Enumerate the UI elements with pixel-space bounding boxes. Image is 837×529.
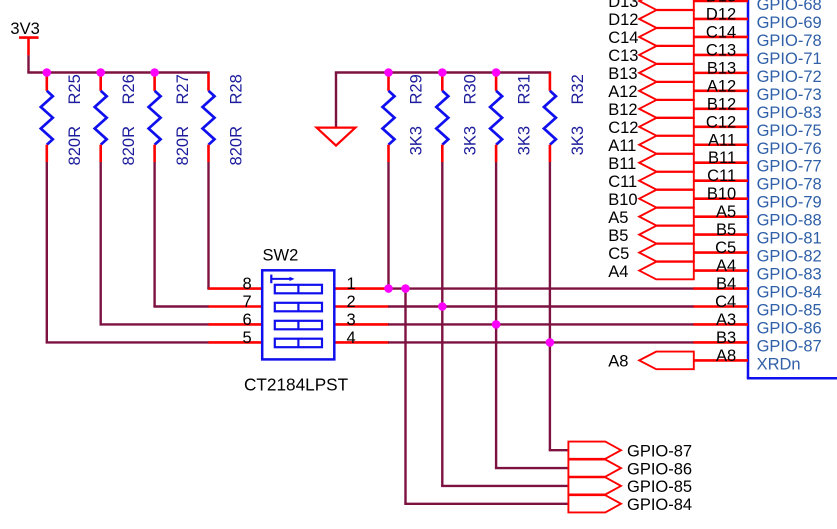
connector pin C5 / GPIO-82 — [693, 239, 821, 265]
svg-text:8: 8 — [243, 275, 252, 293]
svg-text:C14: C14 — [706, 23, 736, 41]
SW2 pin 7 — [209, 293, 263, 311]
connector pin D13 / GPIO-68 — [693, 0, 821, 14]
resistor R25 — [41, 73, 53, 163]
net label C5 — [608, 244, 694, 263]
R31 value label 3K3 — [515, 126, 533, 155]
SW2 pin 8 — [209, 275, 263, 293]
svg-text:B11: B11 — [708, 149, 736, 167]
connector pin A3 / GPIO-86 — [693, 311, 821, 338]
svg-text:B12: B12 — [707, 95, 736, 113]
net label A12 — [608, 82, 694, 101]
svg-text:6: 6 — [243, 311, 252, 329]
wire row B4 to GPIO-84 arrow — [404, 287, 568, 503]
wire R27 to SW2 — [153, 162, 209, 306]
connector pin C14 / GPIO-78 — [693, 23, 821, 50]
svg-text:GPIO-83: GPIO-83 — [757, 104, 822, 122]
R26 designator label — [120, 74, 138, 104]
svg-text:C11: C11 — [608, 173, 637, 191]
net label B5 — [608, 226, 694, 245]
SW2 value label CT2184LPST — [244, 375, 349, 395]
svg-text:R32: R32 — [569, 74, 587, 104]
svg-text:GPIO-75: GPIO-75 — [757, 122, 822, 140]
svg-text:A4: A4 — [716, 257, 736, 275]
svg-text:GPIO-72: GPIO-72 — [757, 68, 822, 86]
wire R30 to GPIO-85 arrow — [441, 162, 568, 486]
connector pin A8 / XRDn — [693, 347, 800, 374]
wire SW2 pin 1 to connector — [388, 287, 694, 289]
svg-text:GPIO-87: GPIO-87 — [757, 337, 822, 355]
svg-text:SW2: SW2 — [263, 247, 299, 265]
svg-text:R31: R31 — [515, 74, 533, 104]
wire GND bus — [335, 71, 551, 73]
junction — [438, 302, 447, 311]
svg-text:B5: B5 — [608, 227, 628, 245]
resistor R26 — [95, 73, 107, 163]
svg-text:B10: B10 — [608, 191, 637, 209]
svg-text:GPIO-76: GPIO-76 — [757, 140, 822, 158]
resistor R29 — [383, 73, 395, 163]
svg-text:A5: A5 — [608, 209, 628, 227]
resistor R28 — [203, 73, 215, 163]
R27 value label 820R — [174, 126, 192, 166]
svg-text:GPIO-78: GPIO-78 — [757, 176, 822, 194]
wire R26 to SW2 — [100, 162, 210, 324]
junction — [43, 68, 52, 77]
svg-text:A3: A3 — [716, 311, 736, 329]
svg-text:7: 7 — [243, 293, 252, 311]
switch SW2 body — [262, 270, 334, 359]
svg-text:GPIO-82: GPIO-82 — [757, 248, 822, 266]
R25 designator label — [66, 74, 84, 104]
connector pin A4 / GPIO-83 — [693, 257, 821, 284]
SW2 switch element 1 — [275, 285, 322, 294]
SW2 pin 5 — [209, 329, 263, 347]
svg-text:D12: D12 — [608, 11, 638, 29]
net label A4 — [608, 262, 694, 281]
connector pin A5 / GPIO-88 — [693, 203, 821, 230]
svg-text:D12: D12 — [706, 5, 736, 23]
net label B13 — [608, 64, 694, 83]
svg-text:A8: A8 — [608, 353, 628, 371]
connector body — [747, 0, 837, 378]
SW2 pin 4 — [334, 329, 389, 347]
net label B12 — [608, 100, 694, 119]
junction — [546, 338, 555, 347]
svg-text:2: 2 — [347, 293, 356, 311]
svg-text:GPIO-85: GPIO-85 — [627, 478, 692, 496]
connector pin B12 / GPIO-83 — [693, 95, 821, 122]
svg-text:1: 1 — [347, 275, 356, 293]
svg-text:C11: C11 — [707, 167, 736, 185]
svg-text:GPIO-81: GPIO-81 — [757, 230, 822, 248]
svg-text:B4: B4 — [716, 275, 736, 293]
connector pin C13 / GPIO-71 — [693, 41, 821, 68]
svg-text:B11: B11 — [608, 155, 636, 173]
wire SW2 pin 2 to connector — [388, 305, 694, 307]
resistor R27 — [149, 73, 161, 163]
connector pin A11 / GPIO-76 — [693, 131, 821, 158]
connector pin D12 / GPIO-69 — [693, 5, 821, 32]
R30 value label 3K3 — [462, 126, 480, 155]
R26 value label 820R — [120, 126, 138, 166]
svg-text:R30: R30 — [462, 74, 480, 104]
resistor R32 — [544, 73, 556, 163]
svg-text:GPIO-79: GPIO-79 — [757, 194, 822, 212]
R29 designator label — [408, 74, 426, 104]
svg-text:820R: 820R — [66, 126, 84, 166]
svg-text:GPIO-88: GPIO-88 — [757, 212, 822, 230]
connector pin B11 / GPIO-77 — [693, 149, 821, 176]
svg-text:A12: A12 — [707, 77, 736, 95]
wire 3V3 bus — [27, 71, 209, 73]
SW2 switch element 3 — [275, 321, 322, 330]
svg-text:3: 3 — [347, 311, 356, 329]
R29 value label 3K3 — [408, 126, 426, 155]
svg-text:C4: C4 — [715, 293, 736, 311]
svg-text:B13: B13 — [608, 65, 637, 83]
junction — [492, 68, 501, 77]
svg-text:R25: R25 — [66, 74, 84, 104]
R32 designator label — [569, 74, 587, 104]
svg-text:A12: A12 — [608, 83, 637, 101]
connector pin B4 / GPIO-84 — [693, 275, 821, 302]
net label C12 — [608, 118, 694, 137]
net label GPIO-87 — [568, 442, 692, 461]
svg-text:A11: A11 — [708, 131, 736, 149]
connector pin B3 / GPIO-87 — [693, 329, 821, 356]
svg-text:3V3: 3V3 — [10, 20, 39, 38]
svg-text:C13: C13 — [608, 47, 638, 65]
net label C14 — [608, 28, 694, 47]
svg-text:B3: B3 — [716, 329, 736, 347]
svg-text:GPIO-86: GPIO-86 — [757, 319, 822, 337]
svg-text:B13: B13 — [707, 59, 736, 77]
SW2 designator label — [263, 247, 299, 265]
svg-text:C12: C12 — [706, 113, 736, 131]
net label C11 — [608, 172, 694, 191]
wire bus to ground — [335, 73, 337, 128]
svg-text:C5: C5 — [715, 239, 736, 257]
net label GPIO-85 — [568, 477, 692, 496]
junction — [384, 284, 393, 293]
svg-text:XRDn: XRDn — [757, 355, 801, 373]
net label GPIO-86 — [568, 460, 692, 479]
connector pin B5 / GPIO-81 — [693, 221, 821, 248]
svg-text:GPIO-87: GPIO-87 — [627, 443, 692, 461]
connector pin B13 / GPIO-72 — [693, 59, 821, 86]
svg-text:GPIO-86: GPIO-86 — [627, 460, 692, 478]
svg-text:GPIO-84: GPIO-84 — [627, 496, 692, 514]
net label A11 — [608, 136, 694, 155]
junction — [384, 68, 393, 77]
svg-text:R29: R29 — [408, 74, 426, 104]
svg-text:C13: C13 — [706, 41, 736, 59]
svg-text:CT2184LPST: CT2184LPST — [244, 375, 349, 395]
svg-text:GPIO-85: GPIO-85 — [757, 301, 822, 319]
svg-text:A5: A5 — [716, 203, 736, 221]
svg-text:R27: R27 — [174, 74, 192, 104]
resistor R30 — [436, 73, 448, 163]
svg-text:820R: 820R — [174, 126, 192, 166]
svg-text:R26: R26 — [120, 74, 138, 104]
wire R25 to SW2 — [46, 162, 210, 342]
R31 designator label — [515, 74, 533, 104]
svg-text:5: 5 — [243, 329, 252, 347]
junction — [492, 320, 501, 329]
connector pin C11 / GPIO-78 — [693, 167, 821, 194]
R28 value label 820R — [228, 126, 246, 166]
net label B10 — [608, 190, 694, 209]
svg-text:A8: A8 — [716, 347, 736, 365]
junction — [150, 68, 159, 77]
svg-text:3K3: 3K3 — [569, 126, 587, 155]
svg-text:R28: R28 — [228, 74, 246, 104]
power 3V3 — [10, 20, 39, 55]
wire 3V3 to bus — [27, 55, 29, 72]
net label C13 — [608, 46, 694, 65]
svg-text:GPIO-83: GPIO-83 — [757, 266, 822, 284]
svg-text:820R: 820R — [228, 126, 246, 166]
svg-text:B10: B10 — [707, 185, 736, 203]
svg-text:3K3: 3K3 — [462, 126, 480, 155]
SW2 pin 3 — [334, 311, 389, 329]
svg-text:4: 4 — [347, 329, 356, 347]
svg-text:C5: C5 — [608, 245, 629, 263]
R30 designator label — [462, 74, 480, 104]
wire SW2 pin 3 to connector — [388, 323, 694, 325]
svg-text:C12: C12 — [608, 119, 638, 137]
junction — [96, 68, 105, 77]
svg-text:GPIO-77: GPIO-77 — [757, 158, 822, 176]
wire R28 to SW2 — [207, 162, 209, 289]
svg-text:D13: D13 — [608, 0, 638, 11]
svg-text:GPIO-73: GPIO-73 — [757, 86, 822, 104]
svg-text:GPIO-84: GPIO-84 — [757, 284, 822, 302]
net label A8 — [608, 352, 694, 371]
svg-text:3K3: 3K3 — [515, 126, 533, 155]
SW2 pin 2 — [334, 293, 389, 311]
svg-text:3K3: 3K3 — [408, 126, 426, 155]
R27 designator label — [174, 74, 192, 104]
connector pin C12 / GPIO-75 — [693, 113, 821, 139]
wire R32 to GPIO-87 arrow — [549, 162, 569, 450]
SW2 switch element 4 — [275, 339, 322, 348]
connector pin A12 / GPIO-73 — [693, 77, 821, 104]
wire R29 to row B4 — [387, 162, 389, 290]
svg-text:B5: B5 — [716, 221, 736, 239]
net label GPIO-84 — [568, 495, 692, 514]
connector pin C4 / GPIO-85 — [693, 293, 821, 320]
net label A5 — [608, 208, 694, 227]
svg-text:GPIO-71: GPIO-71 — [757, 50, 822, 68]
resistor R31 — [490, 73, 502, 163]
svg-text:A4: A4 — [608, 263, 628, 281]
svg-text:GPIO-69: GPIO-69 — [757, 14, 822, 32]
svg-text:B12: B12 — [608, 101, 637, 119]
wire R31 to GPIO-86 arrow — [495, 162, 569, 468]
R25 value label 820R — [66, 126, 84, 166]
junction — [438, 68, 447, 77]
SW2 pin 6 — [209, 311, 263, 329]
SW2 switch element 2 — [275, 303, 322, 312]
svg-text:820R: 820R — [120, 126, 138, 166]
ground — [317, 128, 356, 146]
net label B11 — [608, 154, 694, 173]
wire SW2 pin 4 to connector — [388, 341, 694, 343]
SW2 pin 1 — [334, 275, 389, 293]
R28 designator label — [228, 74, 246, 104]
net label D13 — [608, 0, 694, 11]
connector pin B10 / GPIO-79 — [693, 185, 821, 212]
svg-text:A11: A11 — [608, 137, 636, 155]
svg-text:C14: C14 — [608, 29, 638, 47]
svg-text:GPIO-78: GPIO-78 — [757, 32, 822, 50]
svg-text:GPIO-68: GPIO-68 — [757, 0, 822, 14]
R32 value label 3K3 — [569, 126, 587, 155]
net label D12 — [608, 10, 694, 29]
junction — [401, 284, 410, 293]
